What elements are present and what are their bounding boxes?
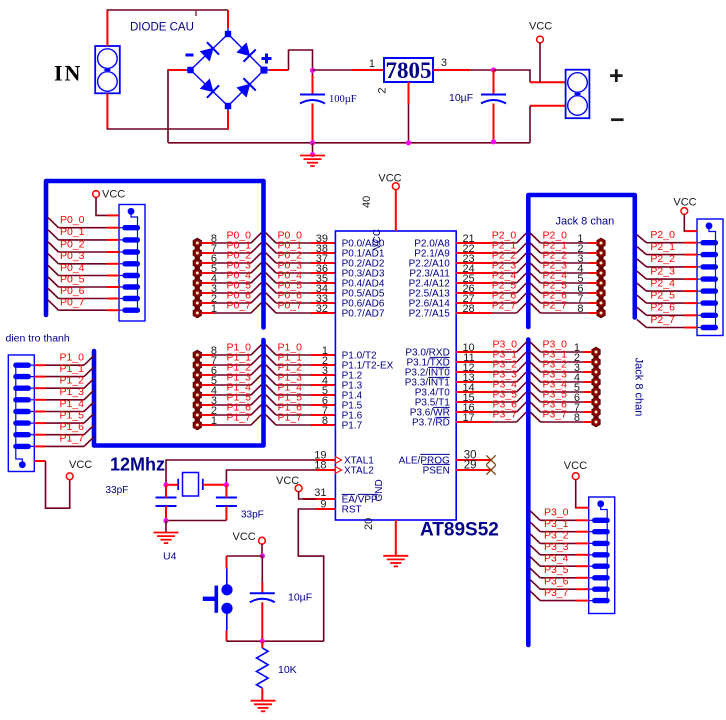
wire IC pin 12 to bus (P3_2) (456, 358, 526, 374)
svg-text:P3_0: P3_0 (544, 507, 569, 519)
wire bus to IC pin 5 (266, 381, 336, 397)
wire C4 bottom (225, 506, 227, 521)
wire bus to jack J-P3 pin 1 (530, 338, 592, 354)
wire C5 top lead (261, 556, 263, 582)
wire IC pin 28 to bus (P2_7) (456, 299, 526, 315)
wire header J-P0 pin 8 to bus (202, 229, 262, 245)
capacitor C4 33pF (right) (216, 498, 237, 507)
wire IC pin 26 to bus (P2_5) (456, 279, 526, 295)
diode D2 (top-right arm) of bridge (236, 42, 256, 62)
wire minus rail down (167, 69, 169, 143)
wire bus to RN4 P3_5 (530, 564, 589, 578)
wire header J-P1 pin 4 to bus (202, 381, 262, 397)
wire VCC to RN1 common (96, 197, 107, 215)
resistor network RN3 (P2 pull-ups) (697, 219, 723, 336)
svg-text:P2_6: P2_6 (650, 302, 675, 314)
resistor R1 10K (256, 641, 268, 701)
svg-text:33pF: 33pF (106, 485, 129, 496)
svg-text:VCC: VCC (673, 197, 696, 209)
wire bus to IC pin 33 (266, 289, 336, 305)
svg-text:P3_7: P3_7 (493, 408, 518, 420)
junction C1 rail (310, 140, 315, 145)
svg-text:VCC: VCC (378, 173, 401, 185)
op IC U1 AT89S52 box (335, 231, 456, 520)
wire C2 lead (493, 70, 495, 95)
svg-text:P3.7/RD: P3.7/RD (412, 417, 450, 428)
svg-text:P0_6: P0_6 (60, 285, 85, 297)
wire P1_2 RN2 to bus (34, 375, 94, 389)
svg-text:P3_6: P3_6 (544, 576, 569, 588)
wire bus to RN3 P2_1 (637, 241, 697, 255)
power symbol VCC top-right (529, 21, 552, 43)
junction crystal right (224, 482, 229, 487)
junction reset bottom (260, 639, 265, 644)
junction ground (310, 152, 315, 157)
svg-text:XTAL2: XTAL2 (344, 465, 374, 476)
wire bus to RN4 P3_4 (530, 553, 589, 567)
wire bus to jack J-P3 pin 3 (530, 358, 592, 374)
svg-text:P0_4: P0_4 (60, 262, 85, 274)
bridge node bottom (225, 103, 231, 109)
bus P0 (top-left) (46, 181, 264, 328)
svg-text:VCC: VCC (233, 531, 256, 543)
wire bus to IC pin 34 (266, 279, 336, 295)
wire bus to RN3 P2_2 (637, 253, 697, 267)
power symbol VCC EA (276, 475, 302, 492)
wire bus to IC pin 4 (266, 371, 336, 387)
wire bus to jack J-P2 pin 1 (530, 229, 597, 245)
svg-text:P0_1: P0_1 (60, 226, 85, 238)
connector J-P2 Jack 8 chan (8-pin header) (597, 238, 605, 318)
wire VCC to EA (299, 491, 316, 499)
wire ground stub U4 (165, 521, 167, 533)
wire IC pin 16 to bus (P3_6) (456, 398, 526, 414)
svg-text:VCC: VCC (102, 189, 125, 201)
svg-text:P1.7: P1.7 (342, 420, 363, 431)
svg-text:12Mhz: 12Mhz (110, 455, 165, 475)
connector J-P3 Jack 8 chan (8-pin header) (592, 347, 600, 427)
svg-text:DIODE CAU: DIODE CAU (130, 22, 194, 34)
svg-text:2: 2 (377, 87, 389, 93)
pin stub XTAL1 pin 19 (314, 450, 335, 462)
tick mark (195, 11, 197, 16)
wire 7805 pin2 to rail (408, 104, 410, 143)
svg-text:P1_7: P1_7 (278, 411, 303, 423)
wire IC pin 14 to bus (P3_4) (456, 378, 526, 394)
wire header J-P0 pin 6 to bus (202, 249, 262, 265)
wire header J-P1 pin 3 to bus (202, 391, 262, 407)
pin stub RN3 common (685, 230, 697, 232)
pin stub 7805 pin3 (433, 69, 470, 71)
svg-text:Jack 8 chan: Jack 8 chan (556, 216, 615, 228)
wire bus to RN3 P2_5 (637, 289, 697, 303)
wire ground rail bottom (168, 142, 530, 144)
wire P1_7 RN2 to bus (34, 433, 94, 447)
svg-text:VCC: VCC (529, 21, 552, 33)
wire IN+ top (106, 10, 108, 46)
junction crystal left (163, 482, 168, 487)
wire bus to jack J-P2 pin 3 (530, 249, 597, 265)
wire P0_4 bus to RN1 (48, 262, 119, 276)
pin name P3.2/INT0 (405, 367, 450, 378)
wire switch bottom lead (226, 630, 228, 641)
wire bus to RN3 P2_4 (637, 277, 697, 291)
wire bus to RN4 P3_2 (530, 530, 589, 544)
wire VCC symbol down (539, 43, 541, 83)
pin stub PSEN pin 29 no-connect (456, 460, 496, 475)
svg-text:P3_2: P3_2 (544, 530, 569, 542)
wire IC pin 24 to bus (P2_3) (456, 259, 526, 275)
wire bus to jack J-P3 pin 7 (530, 398, 592, 414)
wire header J-P0 pin 4 to bus (202, 269, 262, 285)
switch SW reset push button (203, 568, 233, 630)
wire C5 bottom lead (261, 602, 263, 641)
svg-text:P3_7: P3_7 (543, 408, 568, 420)
svg-text:P0_7: P0_7 (227, 299, 252, 311)
svg-text:8: 8 (574, 412, 580, 424)
junction reset top (260, 553, 265, 558)
wire IC pin 25 to bus (P2_4) (456, 269, 526, 285)
wire bus to RN4 P3_1 (530, 518, 589, 532)
wire bus to jack J-P2 pin 2 (530, 239, 597, 255)
svg-text:P2_7: P2_7 (650, 314, 675, 326)
pin name P3.1/TXD (406, 357, 449, 368)
svg-text:−: − (610, 106, 625, 134)
svg-text:VCC: VCC (564, 460, 587, 472)
wire bus to IC pin 3 (266, 361, 336, 377)
wire VCC out (494, 70, 531, 82)
wire IC pin 23 to bus (P2_2) (456, 249, 526, 265)
svg-text:P2_4: P2_4 (650, 277, 675, 289)
label plus of bridge (262, 54, 272, 64)
connector J-P0 (8-pin header) (193, 238, 201, 318)
bus P3 (right lower) (526, 340, 531, 646)
svg-text:P2_7: P2_7 (543, 299, 568, 311)
wire to cap C1 (312, 75, 314, 95)
wire bus to RN3 P2_7 (637, 314, 697, 328)
svg-text:P1_6: P1_6 (60, 421, 85, 433)
wire bus to RN3 P2_3 (637, 265, 697, 279)
wire P1_1 RN2 to bus (34, 363, 94, 377)
wire IC pin 10 to bus (P3_0) (456, 338, 526, 354)
svg-text:P3_3: P3_3 (544, 541, 569, 553)
pin name XTAL2 (335, 465, 374, 476)
svg-text:1: 1 (369, 58, 375, 70)
power symbol VCC IC pin40 (378, 173, 401, 190)
wire reset top rail (227, 555, 263, 557)
wire C3 bottom (165, 506, 167, 521)
svg-text:P0_7: P0_7 (60, 297, 85, 309)
wire pin 40 (395, 189, 397, 231)
svg-text:3: 3 (441, 57, 447, 69)
pin stub crystal right (203, 484, 227, 486)
pin stub RN1 common (107, 214, 119, 216)
pin stub crystal left (166, 484, 178, 486)
wire XTAL1 (166, 460, 316, 485)
wire header J-P1 pin 6 to bus (202, 361, 262, 377)
wire bridge minus out (168, 69, 186, 71)
wire to out+ (530, 81, 566, 83)
label minus of bridge (186, 54, 194, 57)
svg-text:9: 9 (320, 499, 326, 511)
svg-text:31: 31 (314, 487, 326, 499)
wire IC pin 15 to bus (P3_5) (456, 388, 526, 404)
wire bridge bottom feed (227, 111, 229, 130)
wire IC pin 27 to bus (P2_6) (456, 289, 526, 305)
wire C4 top (225, 485, 227, 498)
wire bus to jack J-P2 pin 8 (530, 299, 597, 315)
wire RST pin routing (298, 509, 323, 641)
wire bus to IC pin 39 (266, 229, 336, 245)
diode D1 (left-top arm) of bridge (199, 42, 219, 62)
wire bus to IC pin 6 (266, 391, 336, 407)
wire bus to IC pin 32 (266, 299, 336, 315)
svg-text:P2_1: P2_1 (650, 241, 675, 253)
power symbol VCC RN2 (66, 459, 92, 480)
pin name PSEN (423, 464, 450, 476)
bus P2 (right upper) (528, 195, 635, 327)
wire reset bottom rail (227, 640, 324, 642)
pin stub RN2 common (34, 460, 45, 462)
svg-text:8: 8 (577, 303, 583, 315)
wire VCC to RN3 common (684, 214, 686, 231)
wire bus to jack J-P3 pin 2 (530, 348, 592, 364)
wire RN2 common to VCC (46, 461, 70, 508)
svg-text:33pF: 33pF (241, 510, 264, 521)
pin name EA/VPP (342, 494, 378, 505)
svg-text:P0_7: P0_7 (278, 299, 303, 311)
wire bus to RN4 P3_3 (530, 541, 589, 555)
wire out- to rail (529, 106, 531, 143)
wire cap commons (166, 520, 226, 522)
wire IC pin 22 to bus (P2_1) (456, 239, 526, 255)
svg-text:7805: 7805 (386, 58, 432, 83)
pin name P3.3/INT1 (405, 377, 450, 388)
wire bus to IC pin 37 (266, 249, 336, 265)
bus P1 (bottom-left) (94, 340, 264, 446)
svg-text:20: 20 (363, 518, 375, 530)
wire bus to jack J-P3 pin 5 (530, 378, 592, 394)
svg-text:dien tro thanh: dien tro thanh (6, 333, 70, 345)
wire header J-P1 pin 7 to bus (202, 351, 262, 367)
svg-text:U4: U4 (163, 551, 177, 563)
wire to 7805 input (313, 69, 353, 71)
wire XTAL2 (226, 470, 316, 485)
wire bus to IC pin 1 (266, 341, 336, 357)
svg-text:28: 28 (462, 303, 474, 315)
capacitor C1 100uF (300, 95, 325, 104)
wire 7805 out to C2 (470, 69, 494, 71)
ground crystal (154, 533, 179, 544)
wire bus to IC pin 35 (266, 269, 336, 285)
wire bus to IC pin 36 (266, 259, 336, 275)
wire plus hump (289, 50, 313, 83)
ground G1 (300, 156, 325, 167)
power symbol VCC RN3 (673, 197, 696, 215)
pin name P3.4/T0 (415, 387, 450, 398)
wire switch top lead (226, 556, 228, 568)
pin stub ALE pin 30 no-connect (456, 450, 496, 465)
junction C2 top (491, 67, 496, 72)
wire P0_2 bus to RN1 (48, 238, 119, 252)
diode bridge outline (186, 28, 270, 111)
power symbol VCC reset (233, 531, 266, 544)
svg-text:1: 1 (211, 303, 217, 315)
svg-text:P1_0: P1_0 (60, 352, 85, 364)
svg-text:P1_1: P1_1 (60, 363, 85, 375)
capacitor C2 10uF (481, 95, 506, 104)
svg-text:P3_7: P3_7 (544, 587, 569, 599)
svg-text:Jack 8 chan: Jack 8 chan (633, 358, 645, 417)
wire ground stub (312, 143, 314, 156)
svg-text:P3_1: P3_1 (544, 518, 569, 530)
svg-text:P0_0: P0_0 (60, 214, 85, 226)
wire P1_4 RN2 to bus (34, 398, 94, 412)
wire bus to jack J-P3 pin 8 (530, 408, 592, 424)
svg-text:10µF: 10µF (288, 592, 312, 604)
wire P0_6 bus to RN1 (48, 285, 119, 299)
svg-text:P2_0: P2_0 (650, 229, 675, 241)
pin name P3.5/T1 (415, 397, 450, 408)
svg-text:P0_5: P0_5 (60, 273, 85, 285)
power symbol VCC RN4 (564, 460, 587, 480)
pin name P3.6/WR (410, 407, 450, 418)
wire header J-P1 pin 2 to bus (202, 401, 262, 417)
wire IC pin 13 to bus (P3_3) (456, 368, 526, 384)
svg-text:29: 29 (464, 460, 477, 472)
crystal Y1 12MHz (178, 473, 203, 497)
svg-text:40: 40 (361, 196, 373, 208)
svg-text:10µF: 10µF (449, 92, 473, 104)
wire bus to jack J-P3 pin 6 (530, 388, 592, 404)
wire bus to IC pin 38 (266, 239, 336, 255)
wire P1_6 RN2 to bus (34, 421, 94, 435)
capacitor C5 10uF (reset) (250, 593, 275, 602)
svg-text:1: 1 (211, 415, 217, 427)
wire bridge plus out (270, 69, 289, 71)
pin stub 7805 pin2 down (408, 82, 410, 104)
wire C2 to rail (493, 104, 495, 143)
regulator U 7805 (384, 58, 433, 83)
svg-text:P0.7/AD7: P0.7/AD7 (342, 308, 385, 319)
wire bus to RN4 P3_7 (530, 587, 589, 601)
wire pin 20 to ground (395, 520, 397, 556)
wire bus to IC pin 2 (266, 351, 336, 367)
wire P1_3 RN2 to bus (34, 386, 94, 400)
bridge node top (225, 31, 231, 37)
wire IC pin 21 to bus (P2_0) (456, 229, 526, 245)
wire bus to jack J-P2 pin 6 (530, 279, 597, 295)
junction 7805 gnd (406, 140, 411, 145)
svg-text:AT89S52: AT89S52 (420, 520, 499, 541)
svg-text:10K: 10K (278, 664, 297, 676)
wire IN- bottom (106, 93, 108, 129)
junction caps ground (163, 518, 168, 523)
resistor network RN1 (P0 pull-ups) (119, 205, 145, 322)
wire header J-P0 pin 3 to bus (202, 279, 262, 295)
pin stub RN4 common (577, 507, 589, 509)
wire header J-P1 pin 5 to bus (202, 371, 262, 387)
wire P0_0 bus to RN1 (48, 214, 119, 228)
svg-text:PSEN: PSEN (423, 465, 450, 476)
svg-text:VCC: VCC (69, 459, 92, 471)
svg-text:P1_3: P1_3 (60, 386, 85, 398)
svg-text:18: 18 (314, 460, 326, 472)
svg-text:P0_3: P0_3 (60, 250, 85, 262)
svg-text:IN: IN (54, 61, 82, 86)
wire bridge top feed (227, 10, 229, 28)
wire P0_3 bus to RN1 (48, 250, 119, 264)
svg-text:P2.7/A15: P2.7/A15 (409, 308, 451, 319)
wire P0_7 bus to RN1 (48, 297, 119, 311)
junction C2 rail (491, 139, 496, 144)
wire header J-P0 pin 5 to bus (202, 259, 262, 275)
pin name ALE/PROG (399, 454, 450, 466)
wire bus to jack J-P3 pin 4 (530, 368, 592, 384)
svg-text:RST: RST (342, 504, 362, 515)
wire header J-P1 pin 8 to bus (202, 341, 262, 357)
svg-text:P1_2: P1_2 (60, 375, 85, 387)
wire header J-P0 pin 1 to bus (202, 299, 262, 315)
svg-text:P3_5: P3_5 (544, 564, 569, 576)
resistor network RN2 (P1 pull-ups) (8, 355, 34, 472)
wire bus to jack J-P2 pin 7 (530, 289, 597, 305)
wire bus to RN4 P3_6 (530, 576, 589, 590)
wire P1_0 RN2 to bus (34, 352, 94, 366)
svg-text:VCC: VCC (276, 475, 299, 487)
pin name P3.0/RXD (405, 347, 449, 358)
svg-text:P2_3: P2_3 (650, 265, 675, 277)
wire VCC to RN4 common (576, 479, 577, 507)
wire header J-P0 pin 2 to bus (202, 289, 262, 305)
pin name XTAL1 (335, 455, 374, 466)
svg-text:P2_7: P2_7 (492, 299, 517, 311)
svg-text:8: 8 (322, 415, 328, 427)
wire top horizontal to bridge (107, 9, 228, 11)
junction plus node (310, 68, 315, 73)
wire C3 top (165, 485, 167, 498)
wire bus to jack J-P2 pin 4 (530, 259, 597, 275)
wire header J-P0 pin 7 to bus (202, 239, 262, 255)
pin stub EA pin 31 (303, 487, 335, 499)
ground reset (251, 701, 276, 712)
bridge node right (260, 67, 267, 74)
wire header J-P1 pin 1 to bus (202, 411, 262, 427)
wire IC pin 17 to bus (P3_7) (456, 408, 526, 424)
wire P0_5 bus to RN1 (48, 273, 119, 287)
wire IC pin 11 to bus (P3_1) (456, 348, 526, 364)
svg-text:P1_7: P1_7 (227, 411, 252, 423)
wire bus to jack J-P2 pin 5 (530, 269, 597, 285)
pin stub RST pin 9 (316, 499, 335, 511)
power symbol VCC RN1 (93, 189, 126, 201)
svg-text:17: 17 (462, 412, 474, 424)
svg-text:P1_5: P1_5 (60, 409, 85, 421)
ground IC pin20 (383, 556, 408, 567)
resistor network RN4 (P3 pull-ups) (589, 497, 615, 614)
wire bus to RN3 P2_6 (637, 302, 697, 316)
wire bottom horizontal to bridge (107, 128, 228, 130)
svg-text:+: + (609, 62, 624, 90)
svg-text:P0_2: P0_2 (60, 238, 85, 250)
pin stub 7805 pin1 (352, 69, 384, 71)
wire bus to IC pin 7 (266, 401, 336, 417)
wire bus to RN4 P3_0 (530, 507, 589, 521)
svg-text:100µF: 100µF (329, 94, 357, 105)
wire P0_1 bus to RN1 (48, 226, 119, 240)
diode D3 (left-bottom arm) of bridge (199, 78, 219, 98)
wire C1 to ground rail (312, 104, 314, 143)
